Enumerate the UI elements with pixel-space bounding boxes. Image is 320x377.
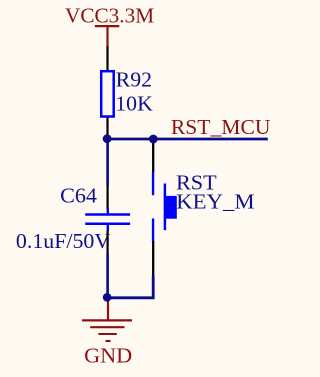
svg-text:10K: 10K: [115, 91, 153, 115]
wire from C64 to bottom junction: [106, 254, 109, 299]
pin: R92 pin 1: [106, 47, 108, 71]
pin: C64 pin 2: [106, 231, 108, 255]
svg-text:GND: GND: [84, 344, 132, 368]
svg-text:VCC3.3M: VCC3.3M: [65, 4, 154, 28]
wire RST_MCU horizontal: [107, 138, 268, 141]
svg-text:R92: R92: [116, 68, 152, 92]
pin: C64 pin 1: [106, 185, 108, 210]
pin: switch pin 2: [152, 241, 154, 276]
svg-text:RST_MCU: RST_MCU: [171, 115, 271, 139]
resistor R92: [101, 71, 114, 116]
pin: R92 pin 2: [106, 117, 108, 139]
power port VCC3.3M: [65, 4, 154, 48]
pin: switch pin 1: [152, 139, 154, 172]
ground symbol GND: [82, 299, 132, 368]
svg-text:KEY_M: KEY_M: [176, 190, 255, 214]
junction node GND: [103, 293, 112, 302]
wire left branch down from junction: [106, 139, 109, 186]
junction node at switch branch: [149, 135, 158, 144]
capacitor C64: [85, 209, 130, 231]
svg-text:C64: C64: [60, 184, 97, 208]
switch KEY_M (push button): [153, 173, 177, 241]
wire from switch to bottom junction: [107, 276, 153, 298]
junction node at RST_MCU net: [103, 134, 112, 143]
svg-text:0.1uF/50V: 0.1uF/50V: [16, 229, 110, 253]
